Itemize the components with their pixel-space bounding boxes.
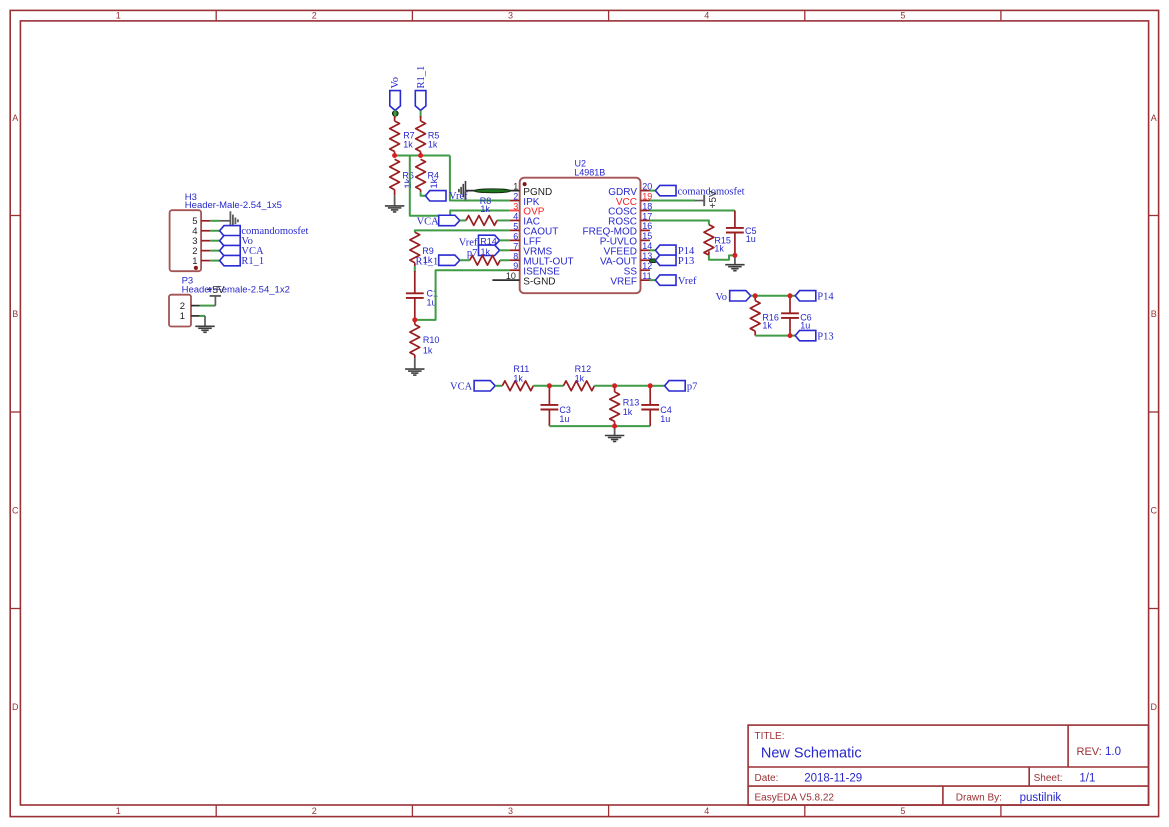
ground below R10	[414, 358, 416, 368]
capacitor C5	[734, 211, 736, 228]
U2 pin1 marker	[523, 182, 527, 186]
svg-text:1k: 1k	[429, 178, 440, 188]
net flag P14 (VFEED)	[655, 245, 676, 255]
svg-text:R1_1: R1_1	[241, 256, 264, 267]
svg-text:Vo: Vo	[390, 77, 401, 88]
ground at H3 pin 5 (rotated)	[220, 220, 230, 222]
wire OVP to VCA flag top	[450, 211, 510, 216]
H3 pin 4	[201, 230, 210, 232]
resistor R6	[390, 159, 400, 190]
wire VA-OUT to P13 flag	[650, 259, 656, 261]
wire R15 to C5 node	[709, 255, 735, 260]
wire R13 node to C4	[615, 385, 651, 387]
wire C4 to p7 flag	[650, 385, 664, 387]
svg-text:6: 6	[513, 231, 518, 241]
resistor R8	[460, 219, 466, 221]
svg-text:1/1: 1/1	[1079, 772, 1095, 784]
resistor R11	[495, 385, 502, 387]
junction R13/ground	[612, 424, 617, 429]
net flag R1_1 (H3 pin1)	[220, 255, 241, 265]
svg-text:p7: p7	[687, 382, 698, 393]
U2 pin 17 ROSC	[641, 219, 650, 221]
net flag p7 (to VRMS)	[479, 245, 500, 255]
svg-text:4: 4	[513, 211, 518, 221]
junction C6 top	[788, 293, 793, 298]
capacitor C6	[789, 296, 791, 314]
svg-text:5: 5	[900, 806, 905, 816]
wire R9 to C1	[414, 266, 416, 272]
resistor R10	[414, 320, 416, 325]
U2 pin 11 VREF	[641, 279, 650, 281]
wire bottom rail	[549, 425, 650, 427]
U2 pin 3 OVP	[510, 210, 520, 212]
net flag P13 (right)	[795, 330, 816, 340]
net flag R1_1 (top)	[415, 91, 426, 111]
U2 pin 19 VCC	[641, 200, 650, 202]
net flag Vref (VREF)	[655, 275, 676, 285]
wire R4 to Vref flag	[421, 192, 426, 196]
svg-text:A: A	[12, 113, 18, 123]
U2 pin 1 PGND	[492, 190, 519, 192]
resistor R13	[614, 386, 616, 392]
U2 pin 16 FREQ-MOD	[641, 229, 650, 231]
svg-text:1k: 1k	[428, 139, 438, 149]
svg-text:Header-Female-2.54_1x2: Header-Female-2.54_1x2	[182, 285, 290, 296]
svg-text:3: 3	[508, 806, 513, 816]
U2 pin 13 VA-OUT	[641, 259, 650, 261]
H3 pin 2	[201, 250, 210, 252]
svg-text:Date:: Date:	[755, 773, 779, 784]
junction Vo/R16	[753, 293, 758, 298]
title block	[748, 725, 1148, 805]
junction R11/C3	[547, 383, 552, 388]
svg-text:B: B	[1151, 309, 1157, 319]
svg-text:10: 10	[506, 271, 516, 281]
svg-text:P13: P13	[817, 331, 833, 342]
svg-text:1u: 1u	[660, 414, 670, 424]
svg-text:R13: R13	[623, 397, 640, 407]
junction R5/R4	[418, 153, 423, 158]
U2 pin 20 GDRV	[641, 190, 650, 192]
resistor R9	[410, 232, 420, 263]
svg-text:7: 7	[513, 241, 518, 251]
wire Vo flag to R7	[394, 110, 396, 117]
wire Vo to P14 flag	[751, 295, 795, 297]
svg-text:2018-11-29: 2018-11-29	[804, 772, 862, 784]
net flag VCA (at R8)	[439, 215, 460, 225]
svg-text:D: D	[1150, 702, 1157, 712]
svg-text:1: 1	[116, 11, 121, 21]
net flag Vo (H3 pin3)	[220, 236, 241, 246]
U2 pin 6 LFF	[510, 239, 520, 241]
svg-text:R1_1: R1_1	[416, 256, 439, 267]
ellipse under Vo flag	[392, 111, 398, 116]
ground below R13	[614, 426, 616, 435]
svg-text:1k: 1k	[403, 178, 414, 188]
svg-text:1k: 1k	[513, 373, 523, 383]
svg-text:4: 4	[704, 11, 709, 21]
wire CAOUT to R9	[415, 230, 510, 232]
P3 pin 2	[191, 305, 200, 307]
svg-text:REV:: REV:	[1077, 746, 1102, 758]
svg-text:C: C	[12, 505, 19, 515]
wire R7 node to VCA flag	[410, 156, 440, 216]
wire GDRV to flag	[650, 190, 656, 192]
U2 pin 15 P-UVLO	[641, 239, 650, 241]
wire R16 to C6 bottom	[755, 335, 790, 337]
resistor R16	[754, 296, 756, 301]
svg-text:EasyEDA V5.8.22: EasyEDA V5.8.22	[755, 793, 835, 804]
U2 pin 2 IPK	[510, 200, 520, 202]
net flag Vref (to LFF)	[479, 235, 500, 245]
svg-text:Vref: Vref	[449, 191, 468, 202]
svg-text:3: 3	[513, 202, 518, 212]
H3 pin 3	[201, 240, 210, 242]
wire VFEED to P14 flag	[650, 249, 656, 251]
net flag Vo (right)	[730, 291, 751, 301]
ellipse on PGND wire	[474, 189, 510, 193]
svg-text:1k: 1k	[623, 407, 633, 417]
svg-text:1u: 1u	[746, 234, 756, 244]
svg-text:1: 1	[180, 311, 185, 322]
junction C4 top	[648, 383, 653, 388]
svg-text:1k: 1k	[575, 373, 585, 383]
U2 pin 8 MULT-OUT	[510, 259, 520, 261]
svg-text:B: B	[12, 309, 18, 319]
connector H3 body	[170, 210, 202, 271]
svg-text:R1_1: R1_1	[416, 66, 427, 89]
H3 pin 5	[201, 220, 210, 222]
svg-text:2: 2	[513, 192, 518, 202]
svg-text:TITLE:: TITLE:	[755, 731, 785, 742]
svg-text:Drawn By:: Drawn By:	[956, 793, 1002, 804]
net flag comandomosfet (GDRV)	[655, 185, 676, 195]
svg-text:5: 5	[513, 221, 518, 231]
net flag Vref (at R4)	[425, 191, 446, 201]
U2 pin 9 ISENSE	[510, 269, 520, 271]
capacitor C4	[649, 386, 651, 405]
ground stem at U2 pin1	[464, 191, 466, 201]
svg-text:1k: 1k	[762, 321, 772, 331]
svg-text:VCA: VCA	[417, 216, 440, 227]
junction R12/R13	[612, 383, 617, 388]
P3 pin 1	[191, 315, 200, 317]
svg-text:1k: 1k	[423, 345, 433, 355]
net flag VCA (H3 pin2)	[220, 245, 241, 255]
U2 pin 18 COSC	[641, 210, 650, 212]
svg-text:Vref: Vref	[678, 276, 697, 287]
svg-text:P14: P14	[817, 292, 834, 303]
wire ROSC to R15	[650, 220, 709, 224]
U2 pin 4 IAC	[510, 219, 520, 221]
svg-text:pustilnik: pustilnik	[1020, 792, 1062, 804]
svg-text:C: C	[1150, 505, 1157, 515]
ground at U2 pin1 (rotated)	[465, 181, 467, 200]
ground below R6	[394, 195, 396, 205]
svg-text:+5V: +5V	[207, 285, 225, 296]
svg-text:VREF: VREF	[610, 276, 637, 287]
svg-text:P13: P13	[678, 256, 694, 267]
wire PGND to ground	[466, 190, 492, 192]
net flag R1_1 (at R14)	[439, 255, 460, 265]
net flag p7 (right)	[665, 381, 686, 391]
resistor R7	[394, 116, 396, 121]
resistor R5	[420, 116, 422, 121]
svg-text:S-GND: S-GND	[523, 276, 555, 287]
svg-text:L4981B: L4981B	[574, 167, 605, 177]
svg-text:VCA: VCA	[450, 382, 473, 393]
svg-text:1.0: 1.0	[1105, 746, 1121, 758]
wire R1_1 flag to R5	[420, 110, 422, 117]
svg-text:1k: 1k	[480, 204, 490, 214]
wire C6 to P13 flag	[790, 335, 795, 337]
junction C1/R10	[412, 317, 417, 322]
net flag Vo (top)	[390, 91, 401, 111]
connector P3 body	[169, 295, 191, 327]
wire divider row	[395, 155, 450, 157]
junction C6 bottom	[788, 333, 793, 338]
U2 pin 5 CAOUT	[510, 229, 520, 231]
svg-text:New Schematic: New Schematic	[761, 746, 862, 762]
svg-text:R14: R14	[480, 237, 497, 247]
svg-text:D: D	[12, 702, 19, 712]
svg-text:+5V: +5V	[708, 190, 719, 208]
svg-text:1u: 1u	[559, 414, 569, 424]
+5V power flag at VCC (rotated)	[695, 200, 704, 202]
ellipse on VA-OUT pin	[649, 259, 657, 263]
U2 pin 7 VRMS	[510, 249, 520, 251]
svg-text:5: 5	[900, 11, 905, 21]
wire VCC to +5V	[650, 200, 695, 202]
svg-text:3: 3	[508, 11, 513, 21]
capacitor C3	[548, 386, 550, 405]
svg-text:1u: 1u	[800, 321, 810, 331]
wire VREF to Vref flag	[650, 279, 656, 281]
svg-text:1: 1	[116, 806, 121, 816]
svg-text:1k: 1k	[714, 244, 724, 254]
svg-text:A: A	[1151, 113, 1157, 123]
svg-text:4: 4	[704, 806, 709, 816]
U2 pin 10 S-GND	[492, 279, 519, 281]
net flag VCA (bottom)	[474, 381, 495, 391]
resistor R14	[460, 259, 470, 261]
svg-text:1: 1	[192, 256, 197, 267]
svg-text:16: 16	[642, 221, 652, 231]
svg-text:Vo: Vo	[716, 292, 727, 303]
junction R15/C5	[732, 253, 737, 258]
svg-text:8: 8	[513, 251, 518, 261]
svg-text:R10: R10	[423, 335, 440, 345]
svg-text:1k: 1k	[403, 139, 413, 149]
ground at P3 pin1	[204, 316, 206, 326]
resistor R12	[549, 385, 563, 387]
U2 pin 12 SS	[641, 269, 650, 271]
op-amp U2 body + name	[520, 178, 641, 294]
net flag comandomosfet (H3 pin4)	[220, 226, 241, 236]
svg-text:1k: 1k	[481, 247, 491, 257]
svg-text:1: 1	[513, 182, 518, 192]
wire COSC to C5	[650, 210, 735, 212]
junction R7/R6	[392, 153, 397, 158]
U2 pin 14 VFEED	[641, 249, 650, 251]
svg-text:9: 9	[513, 261, 518, 271]
svg-text:2: 2	[312, 11, 317, 21]
resistor R4	[416, 159, 426, 190]
net flag P13 (VA-OUT)	[655, 255, 676, 265]
wire ISENSE to C1 node	[415, 270, 510, 320]
svg-text:2: 2	[312, 806, 317, 816]
svg-text:15: 15	[642, 231, 652, 241]
H3 pin 1	[201, 260, 210, 262]
resistor R15	[704, 225, 714, 256]
net flag P14 (right)	[795, 291, 816, 301]
capacitor C1	[414, 271, 416, 293]
wire to IPK	[450, 156, 510, 201]
H3 pin1 marker dot	[194, 266, 198, 270]
+5V power flag at P3 pin2	[210, 295, 221, 297]
ground below C5	[734, 255, 736, 264]
svg-text:Sheet:: Sheet:	[1034, 773, 1063, 784]
